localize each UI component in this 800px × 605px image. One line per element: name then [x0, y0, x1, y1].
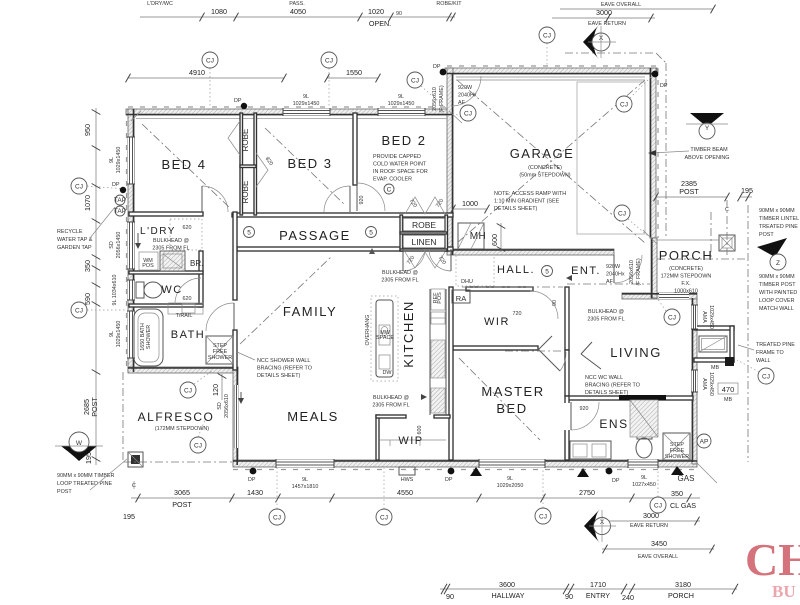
- svg-text:DP: DP: [445, 477, 453, 483]
- dim 2385 post: [654, 179, 730, 201]
- svg-text:620: 620: [183, 225, 192, 231]
- exterior walls group: [126, 66, 734, 470]
- svg-text:AP: AP: [700, 439, 709, 446]
- svg-text:IN ROOF SPACE FOR: IN ROOF SPACE FOR: [373, 169, 428, 175]
- garage slab edge rect: [577, 82, 645, 234]
- wall garage west: [447, 68, 453, 255]
- note treated pine frame: [738, 342, 795, 364]
- dim 600 mh: [490, 223, 505, 252]
- svg-text:2040Hx: 2040Hx: [458, 93, 477, 99]
- meter box nook: [697, 328, 734, 362]
- wall ens west: [565, 396, 569, 460]
- svg-text:FAMILY: FAMILY: [283, 304, 337, 319]
- svg-text:L'DRY/WC: L'DRY/WC: [147, 1, 173, 7]
- svg-text:EAVE RETURN: EAVE RETURN: [630, 523, 668, 529]
- gas diagonal corner: [697, 463, 717, 483]
- svg-text:ENS: ENS: [599, 417, 628, 431]
- svg-text:BR.: BR.: [190, 259, 203, 268]
- note timber beam: [685, 147, 730, 161]
- post alfresco sw: [128, 452, 143, 467]
- markers: [55, 25, 787, 543]
- svg-text:RECYCLE: RECYCLE: [57, 229, 83, 235]
- svg-text:1000: 1000: [462, 199, 478, 208]
- svg-text:470: 470: [722, 385, 735, 394]
- svg-text:9L: 9L: [302, 477, 308, 483]
- svg-text:2056x1450: 2056x1450: [116, 232, 122, 259]
- svg-text:195: 195: [123, 512, 135, 521]
- note recycle tap: [57, 207, 115, 251]
- robe-linen closet hall: [400, 215, 403, 251]
- svg-text:90: 90: [552, 300, 558, 306]
- bath step free shower: [206, 336, 233, 364]
- robe column bed4/bed3: [240, 113, 243, 215]
- svg-text:ROBE: ROBE: [241, 181, 250, 204]
- svg-text:FRAME TO: FRAME TO: [756, 350, 784, 356]
- svg-text:CJ: CJ: [75, 308, 83, 315]
- marker Z: [757, 238, 787, 270]
- svg-text:LINEN: LINEN: [411, 237, 436, 247]
- dim 1000 mh: [451, 199, 490, 213]
- fixtures: [114, 195, 735, 475]
- dim 3000 eave return top: [552, 8, 655, 27]
- timber beam pointer: [648, 150, 689, 156]
- door bath: [206, 303, 234, 331]
- svg-text:TREATED PINE: TREATED PINE: [759, 224, 798, 230]
- step free shower labels: [208, 343, 232, 361]
- bulkhead arrow: [421, 394, 427, 400]
- dim 3000 eave return bottom: [597, 511, 700, 529]
- wall wir south: [453, 346, 538, 350]
- sliding door meals west: [233, 385, 238, 448]
- svg-text:ROBE: ROBE: [412, 220, 436, 230]
- red logo: [745, 534, 800, 601]
- wall garage top: [445, 68, 657, 74]
- porch slab line: [657, 239, 719, 241]
- svg-text:2750: 2750: [579, 488, 595, 497]
- svg-text:DW: DW: [383, 370, 393, 376]
- joist diagonal bed4: [142, 124, 230, 208]
- svg-text:ABOVE OPENING: ABOVE OPENING: [685, 155, 730, 161]
- svg-text:9L: 9L: [507, 476, 513, 482]
- plaster line top wall: [136, 118, 447, 120]
- svg-text:WIR: WIR: [484, 316, 510, 328]
- diagonals and eave lines: [123, 53, 748, 483]
- svg-text:1029x2050: 1029x2050: [497, 483, 524, 489]
- svg-text:CJ: CJ: [539, 514, 547, 521]
- svg-text:BU: BU: [772, 582, 796, 600]
- svg-text:9L 1034x610: 9L 1034x610: [112, 275, 118, 306]
- door garage west: [451, 76, 481, 106]
- note bulkhead meals: [372, 395, 409, 409]
- sd meals label: [217, 394, 230, 418]
- wall east living-ens: [692, 298, 697, 464]
- svg-text:PORCH: PORCH: [659, 248, 713, 263]
- dim string bottom main: [123, 481, 700, 521]
- wall west exterior: [128, 109, 134, 372]
- wall kitchen/master west: [449, 287, 453, 460]
- marker W: [55, 432, 103, 461]
- svg-text:CJ: CJ: [411, 78, 419, 85]
- window labels top: [293, 94, 320, 107]
- door spec bed2 garage: [458, 85, 477, 106]
- door kitchen right: [429, 249, 451, 271]
- window labels south: [292, 477, 319, 490]
- svg-text:920W: 920W: [606, 264, 621, 270]
- wall porch south: [622, 293, 697, 299]
- svg-text:BED: BED: [496, 401, 527, 416]
- svg-text:CJ: CJ: [184, 388, 192, 395]
- svg-text:HWS: HWS: [401, 477, 414, 483]
- sd markers circled 5: [244, 227, 255, 238]
- svg-text:NOTE: ACCESS RAMP WITH: NOTE: ACCESS RAMP WITH: [494, 191, 566, 197]
- svg-text:GAS: GAS: [678, 474, 695, 483]
- svg-text:1550: 1550: [346, 68, 362, 77]
- joist diagonal garage X: [457, 80, 645, 243]
- ens hatched wc: [630, 400, 658, 437]
- note evap cooler bed2: [373, 154, 428, 183]
- svg-text:(F FRAME): (F FRAME): [636, 258, 642, 285]
- hws unit: [399, 467, 415, 475]
- svg-text:KITCHEN: KITCHEN: [401, 300, 416, 368]
- window end ticks: [127, 108, 698, 468]
- joist diagonal master: [459, 358, 540, 440]
- window labels east rotated: [701, 305, 714, 329]
- svg-text:5: 5: [247, 230, 251, 237]
- wall ldry south: [129, 271, 203, 274]
- dim string bottom room row: [440, 580, 738, 602]
- wall master east: [565, 350, 569, 396]
- svg-text:3180: 3180: [675, 580, 691, 589]
- wall wip west: [376, 415, 379, 460]
- svg-text:SD: SD: [217, 402, 223, 410]
- svg-text:9L: 9L: [109, 157, 115, 163]
- svg-text:BULKHEAD @: BULKHEAD @: [588, 309, 624, 315]
- svg-text:1000x610: 1000x610: [674, 289, 698, 295]
- svg-text:C: C: [387, 187, 392, 194]
- svg-text:5: 5: [369, 230, 373, 237]
- window ens south: [628, 460, 658, 467]
- svg-text:BULKHEAD @: BULKHEAD @: [153, 238, 189, 244]
- svg-text:Z: Z: [776, 260, 780, 267]
- svg-text:LOOP TREATED PINE: LOOP TREATED PINE: [57, 481, 113, 487]
- svg-text:CJ: CJ: [273, 515, 281, 522]
- svg-text:ROBE/KIT: ROBE/KIT: [436, 1, 462, 7]
- bifold robe bed4: [228, 121, 240, 155]
- dim 4910: [126, 68, 287, 82]
- bifold robe bed3: [256, 153, 268, 187]
- svg-text:90MM x 90MM: 90MM x 90MM: [759, 208, 795, 214]
- wall wip north: [376, 415, 406, 418]
- svg-text:MB: MB: [724, 397, 732, 403]
- window ens east: [692, 370, 697, 392]
- svg-text:920W: 920W: [458, 85, 473, 91]
- circled c evap: [384, 184, 394, 194]
- svg-text:90: 90: [446, 592, 454, 600]
- door bed2: [357, 183, 385, 211]
- window bed4 west: [128, 137, 134, 184]
- wall garage east: [650, 68, 656, 238]
- corner brace nw: [131, 111, 141, 121]
- svg-text:NCC SHOWER WALL: NCC SHOWER WALL: [257, 358, 310, 364]
- svg-text:2305 FROM FL: 2305 FROM FL: [587, 317, 624, 323]
- meals arrow: [238, 392, 244, 404]
- svg-text:(172MM STEPDOWN): (172MM STEPDOWN): [155, 426, 209, 432]
- svg-text:OPEN.: OPEN.: [369, 19, 391, 28]
- svg-text:3065: 3065: [174, 488, 190, 497]
- svg-text:POST: POST: [759, 232, 774, 238]
- svg-text:WITH PAINTED: WITH PAINTED: [759, 290, 797, 296]
- svg-text:PASSAGE: PASSAGE: [279, 228, 351, 243]
- svg-text:CJ: CJ: [654, 503, 662, 510]
- frame labels rotated: [432, 85, 445, 112]
- window porch fixed: [659, 293, 689, 299]
- svg-text:ROBE: ROBE: [241, 129, 250, 152]
- svg-text:EVAP. COOLER: EVAP. COOLER: [373, 177, 412, 183]
- marker X bottom: [584, 509, 616, 543]
- svg-text:4550: 4550: [397, 488, 413, 497]
- dim 1550: [325, 68, 381, 82]
- svg-text:172MM STEPDOWN: 172MM STEPDOWN: [661, 274, 712, 280]
- svg-text:CJ: CJ: [194, 443, 202, 450]
- lintel ens: [619, 395, 666, 400]
- bath tub label: [140, 323, 152, 351]
- sliding door ldry west: [128, 222, 134, 269]
- svg-text:350: 350: [83, 260, 92, 272]
- svg-text:AMA: AMA: [701, 378, 707, 390]
- dim string left: [82, 108, 100, 465]
- svg-text:BULKHEAD @: BULKHEAD @: [373, 395, 409, 401]
- bifold robe bed2: [405, 197, 445, 214]
- svg-text:1020: 1020: [368, 7, 384, 16]
- svg-text:HALL.: HALL.: [497, 264, 535, 276]
- interior walls: [129, 113, 693, 460]
- svg-text:(CONCRETE): (CONCRETE): [528, 165, 562, 171]
- CL post mark: [725, 200, 729, 255]
- circled AP: [697, 434, 711, 448]
- window living east: [692, 305, 697, 329]
- wall wc south: [129, 304, 203, 307]
- svg-text:WIP: WIP: [398, 435, 423, 447]
- svg-text:AMA: AMA: [701, 311, 707, 323]
- svg-text:TREATED PINE: TREATED PINE: [756, 342, 795, 348]
- svg-text:9L: 9L: [641, 475, 647, 481]
- svg-text:CJ: CJ: [762, 374, 770, 381]
- tap circles: [114, 195, 126, 216]
- svg-text:POS: POS: [437, 292, 443, 304]
- wall bath south: [128, 367, 238, 373]
- svg-text:BRACING (REFER TO: BRACING (REFER TO: [585, 383, 640, 389]
- svg-text:DETAILS SHEET): DETAILS SHEET): [494, 206, 538, 212]
- svg-text:TIMBER BEAM: TIMBER BEAM: [690, 147, 728, 153]
- svg-text:DHU: DHU: [461, 279, 473, 285]
- svg-text:PASS.: PASS.: [289, 1, 304, 7]
- hall ceiling line: [462, 286, 563, 288]
- robe linen boxed labels: [403, 218, 445, 231]
- window master south: [479, 460, 545, 467]
- svg-text:920: 920: [359, 196, 365, 205]
- svg-text:4050: 4050: [290, 7, 306, 16]
- svg-text:ALFRESCO: ALFRESCO: [138, 410, 215, 424]
- door bed4: [202, 186, 228, 212]
- svg-text:3600: 3600: [499, 580, 515, 589]
- door ens: [571, 402, 599, 430]
- svg-text:590: 590: [83, 293, 92, 305]
- CJ markers: [71, 27, 774, 525]
- svg-text:120: 120: [211, 384, 220, 396]
- svg-text:1029x1450: 1029x1450: [116, 321, 122, 348]
- svg-text:2056x610: 2056x610: [224, 394, 230, 418]
- svg-text:CJ: CJ: [206, 58, 214, 65]
- joist diagonal family: [240, 256, 332, 344]
- svg-text:(F FRAME): (F FRAME): [439, 85, 445, 112]
- island overhang dashed: [371, 296, 398, 381]
- note ncc shower: [237, 352, 312, 379]
- wall wir north: [466, 287, 533, 291]
- svg-text:ENTRY: ENTRY: [586, 591, 610, 600]
- svg-text:CJ: CJ: [620, 102, 628, 109]
- svg-text:TIMBER POST: TIMBER POST: [759, 282, 796, 288]
- note ncc wc: [585, 375, 640, 396]
- svg-text:SD: SD: [109, 241, 115, 249]
- svg-text:WALL: WALL: [756, 358, 770, 364]
- svg-text:CJ: CJ: [668, 315, 676, 322]
- kitchen island: [376, 300, 393, 377]
- svg-text:CH: CH: [745, 534, 800, 585]
- door kitchen left: [403, 249, 425, 271]
- ra box: [452, 290, 470, 303]
- svg-text:240: 240: [622, 593, 634, 600]
- svg-text:MATCH WALL: MATCH WALL: [759, 306, 794, 312]
- wall arrows: [369, 248, 684, 477]
- svg-text:WATER TAP &: WATER TAP &: [57, 237, 93, 243]
- svg-text:DP: DP: [234, 98, 242, 104]
- svg-text:350: 350: [671, 489, 683, 498]
- svg-text:NCC WC WALL: NCC WC WALL: [585, 375, 623, 381]
- svg-text:BED 3: BED 3: [287, 156, 332, 171]
- door entry front: [614, 255, 642, 283]
- note timber post painted: [759, 274, 797, 312]
- alfresco edge west: [122, 372, 124, 462]
- svg-text:MB: MB: [711, 365, 719, 371]
- ens shower: [663, 433, 690, 460]
- svg-text:EAVE RETURN: EAVE RETURN: [588, 21, 626, 27]
- svg-text:POST: POST: [57, 489, 72, 495]
- alfresco edge south: [123, 461, 233, 463]
- DP dots: [112, 64, 668, 484]
- marker X top: [583, 25, 616, 59]
- eave line right: [747, 205, 749, 462]
- windows: [127, 77, 698, 468]
- svg-text:BED 4: BED 4: [161, 157, 206, 172]
- svg-text:195: 195: [741, 186, 753, 195]
- svg-text:600: 600: [417, 426, 423, 435]
- window labels west rotated: [109, 147, 122, 174]
- svg-text:90MM x 90MM: 90MM x 90MM: [759, 274, 795, 280]
- brick course ticks: [127, 66, 698, 470]
- meter box black: [725, 357, 734, 366]
- svg-text:POST: POST: [90, 397, 99, 417]
- svg-text:DP: DP: [248, 477, 256, 483]
- svg-text:BULKHEAD @: BULKHEAD @: [382, 270, 418, 276]
- svg-text:2056x610: 2056x610: [629, 260, 635, 284]
- dim 195 post: [738, 186, 754, 201]
- wall passage north (bed south): [129, 212, 203, 216]
- window bed3 top: [283, 109, 330, 115]
- svg-text:SHOWER: SHOWER: [146, 325, 152, 349]
- window meals south: [276, 460, 334, 467]
- svg-text:EAVE OVERALL: EAVE OVERALL: [638, 554, 678, 560]
- svg-text:L'DRY: L'DRY: [140, 226, 176, 237]
- svg-text:PORCH: PORCH: [668, 591, 694, 600]
- window wc west: [128, 280, 134, 300]
- svg-text:MEALS: MEALS: [287, 409, 339, 424]
- marker Y: [686, 113, 728, 139]
- svg-text:TAP: TAP: [114, 197, 126, 204]
- wall ent east / porch west: [651, 238, 657, 298]
- wall bed3/bed2: [353, 113, 357, 185]
- ldry chute arrow: [135, 233, 141, 249]
- dim eave overall top: [560, 2, 716, 13]
- svg-text:600: 600: [490, 234, 499, 246]
- wall garage south: [453, 249, 614, 255]
- note porch concrete: [661, 266, 712, 295]
- door wir: [530, 291, 558, 319]
- svg-text:BED 2: BED 2: [381, 133, 426, 148]
- wall passage south: [237, 247, 403, 251]
- entry arrow: [566, 275, 572, 281]
- svg-text:1029x1450: 1029x1450: [293, 101, 320, 107]
- dhu dashed box: [456, 255, 494, 286]
- svg-text:TAP: TAP: [114, 208, 126, 215]
- bath vanity: [168, 303, 203, 314]
- svg-text:2040Hx: 2040Hx: [606, 272, 625, 278]
- svg-text:90MM x 90MM TIMBER: 90MM x 90MM TIMBER: [57, 473, 115, 479]
- inner wall face lines: [126, 68, 697, 465]
- svg-text:Y: Y: [705, 125, 710, 132]
- note timber lintel post: [759, 208, 799, 238]
- bifold linen: [405, 252, 445, 268]
- MH box: [458, 223, 484, 249]
- svg-text:POST: POST: [172, 500, 192, 509]
- svg-text:1027x450: 1027x450: [632, 482, 656, 488]
- eave line porch north: [657, 258, 748, 260]
- svg-text:T/RAIL: T/RAIL: [176, 313, 193, 319]
- svg-text:1710: 1710: [590, 580, 606, 589]
- svg-text:920: 920: [580, 406, 589, 412]
- living wall brace pointer: [581, 342, 592, 354]
- svg-text:DP: DP: [660, 83, 668, 89]
- svg-text:9L: 9L: [109, 331, 115, 337]
- window bath west: [128, 311, 134, 358]
- svg-text:1080: 1080: [211, 7, 227, 16]
- svg-text:2056x610: 2056x610: [432, 87, 438, 111]
- ent bulkhead line: [567, 283, 650, 285]
- svg-text:AF: AF: [458, 100, 466, 106]
- svg-text:950: 950: [83, 124, 92, 136]
- svg-text:SHOWER: SHOWER: [208, 355, 232, 361]
- svg-text:3000: 3000: [596, 8, 612, 17]
- note bulkhead ldry: [152, 238, 189, 252]
- svg-text:F.X.: F.X.: [681, 281, 690, 287]
- wall ldry east: [199, 251, 203, 307]
- svg-text:TIMBER LINTEL: TIMBER LINTEL: [759, 216, 799, 222]
- svg-text:HALLWAY: HALLWAY: [491, 591, 524, 600]
- svg-text:LIVING: LIVING: [610, 345, 662, 360]
- svg-text:1430: 1430: [247, 488, 263, 497]
- svg-text:1457x1810: 1457x1810: [292, 484, 319, 490]
- note bulkhead ent: [587, 309, 624, 323]
- eave line garage top: [565, 52, 656, 54]
